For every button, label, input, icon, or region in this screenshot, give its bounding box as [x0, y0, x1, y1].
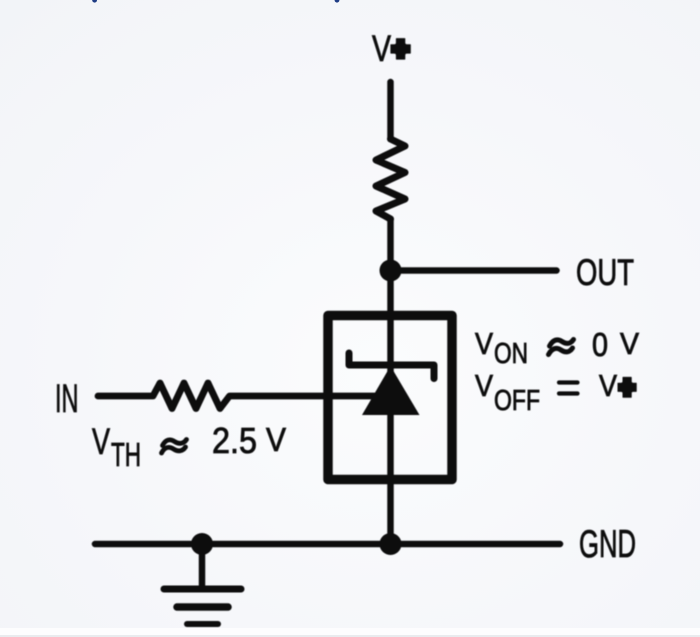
svg-text:GND: GND — [579, 523, 636, 566]
svg-text:2.5: 2.5 — [212, 420, 257, 461]
svg-text:IN: IN — [55, 377, 79, 421]
svg-text:V: V — [372, 28, 391, 69]
svg-text:V: V — [599, 368, 617, 403]
svg-text:OFF: OFF — [494, 385, 540, 417]
svg-text:V: V — [92, 420, 110, 462]
svg-text:0: 0 — [592, 326, 608, 363]
svg-text:ON: ON — [494, 338, 528, 370]
svg-text:OUT: OUT — [576, 251, 634, 293]
svg-text:V: V — [620, 326, 639, 361]
svg-text:V: V — [475, 368, 493, 403]
svg-text:V: V — [266, 421, 286, 458]
svg-text:V: V — [475, 326, 493, 361]
svg-text:TH: TH — [111, 436, 141, 473]
